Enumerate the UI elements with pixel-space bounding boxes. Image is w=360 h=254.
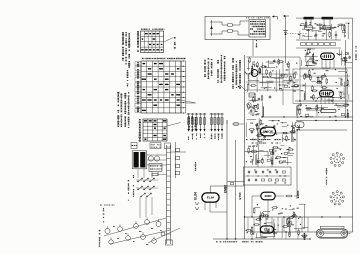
- EM80 grid lead: [252, 195, 261, 197]
- selector leads down: [151, 172, 153, 179]
- voltage selector box: [149, 164, 162, 172]
- tube socket bottom view 1: [330, 152, 345, 166]
- tone box value labels: [247, 175, 249, 178]
- EF89 pin leads: [320, 97, 322, 104]
- note line (rotated): [127, 70, 129, 87]
- antenna trimmer 1: [315, 33, 318, 37]
- rail y120.5: [296, 120, 353, 122]
- mixer grid network wiring mesh: [302, 49, 318, 67]
- pilot lamp 1: [148, 156, 153, 161]
- tube base side nib: [349, 232, 351, 234]
- front-end stage components: [262, 76, 269, 78]
- coil data table: [143, 119, 167, 141]
- svg-text:EABC80: EABC80: [263, 130, 273, 133]
- switch link y181.5: [227, 181, 245, 183]
- voltage table column ticks: [142, 58, 185, 60]
- EL84 pin leads: [204, 202, 206, 210]
- small part labels near lamps: [113, 225, 115, 228]
- parts list block (rotated): [117, 92, 119, 127]
- pointer to frequency note: [164, 38, 174, 43]
- heater chain wire 2: [110, 230, 170, 244]
- HT rail vertical: [352, 40, 354, 232]
- fuse lead: [158, 174, 167, 176]
- tick columns right of coil table: [188, 116, 190, 130]
- svg-text:EL84: EL84: [207, 196, 215, 200]
- AM coil rail bottom: [296, 47, 341, 49]
- dial lamp lead: [148, 228, 180, 243]
- switch to lamp verticals: [139, 197, 141, 218]
- cable harness ladder: [166, 145, 168, 244]
- mid vertical wire: [235, 140, 237, 239]
- mixer grid resistor: [261, 95, 263, 102]
- pickup wiring: [213, 21, 222, 23]
- HT bus y232: [250, 231, 353, 233]
- lamp stems: [107, 226, 109, 229]
- socket caption: [326, 168, 328, 185]
- alignment table column ticks: [141, 28, 165, 29]
- ferrite rod antenna bars: [304, 17, 314, 20]
- waveband switch bank 2: [211, 113, 213, 131]
- legend box 3: [165, 143, 171, 148]
- osc anode network value labels: [339, 53, 342, 56]
- padder capacitor: [269, 95, 272, 99]
- voltage table: [141, 61, 181, 113]
- svg-text:EM80: EM80: [296, 190, 300, 198]
- tube EF89: [320, 90, 334, 97]
- dashed coupling line: [287, 33, 307, 35]
- tube EM80: [261, 192, 275, 200]
- svg-text:ET90: ET90: [238, 192, 242, 200]
- left AVC branch: [270, 132, 296, 134]
- dipole antenna arrow 2: [284, 15, 290, 17]
- IF module outline box: [293, 69, 347, 104]
- harness end box: [166, 240, 173, 245]
- antenna tuning value labels: [313, 27, 316, 30]
- dipole antenna arrow 1: [273, 16, 278, 18]
- EL84 anode lead: [210, 186, 212, 193]
- heater chain wire 1: [104, 218, 166, 236]
- IF output network wiring mesh: [297, 104, 350, 118]
- fuse: [152, 173, 158, 175]
- tube base right pin circle: [341, 230, 347, 236]
- small dark mark: [303, 233, 305, 240]
- volume link to switch: [232, 123, 245, 125]
- antenna tuning wiring mesh: [300, 22, 350, 39]
- power stage vertical drops: [247, 217, 249, 232]
- pickup capacitor: [228, 24, 233, 27]
- front-end bottom rail: [246, 89, 300, 91]
- antenna connector: [283, 30, 287, 32]
- heater lamp circles: [105, 229, 110, 234]
- svg-text:24C: 24C: [297, 124, 301, 131]
- IF mid rails: [300, 75, 350, 77]
- tube EABC80: [260, 127, 275, 136]
- rail y130: [297, 129, 347, 131]
- main left vertical wire: [244, 55, 246, 239]
- IF transformer can 2: [295, 122, 304, 128]
- tone control box: [244, 167, 292, 185]
- right margin tick text: [355, 46, 357, 60]
- pickup crystal element: [211, 20, 213, 36]
- pilot lamp 2: [154, 156, 159, 161]
- IF output network components: [299, 103, 302, 107]
- inner right vertical: [345, 40, 347, 117]
- ferrite coil taps: [305, 20, 307, 26]
- FM dipole feed line: [341, 17, 353, 19]
- EM80 feed vertical x297: [296, 130, 298, 199]
- oscillator coil: [249, 93, 255, 97]
- ladder pointer: [186, 102, 195, 104]
- grid resistor: [271, 158, 273, 167]
- coil pack: [301, 42, 306, 45]
- osc anode network wiring mesh: [337, 49, 352, 66]
- osc section vertical: [299, 57, 301, 101]
- oscillator section value labels: [254, 110, 257, 113]
- AVC rail y117: [262, 116, 353, 118]
- IF output network value labels: [338, 108, 340, 111]
- FM triode circle: [251, 70, 258, 77]
- front-end top rail: [246, 56, 300, 58]
- IF transformer can top view: [321, 109, 337, 112]
- mains switch contacts: [138, 179, 142, 182]
- HT bus y217: [245, 216, 353, 218]
- svg-text:EF89: EF89: [340, 78, 344, 85]
- mains lead down: [137, 169, 139, 178]
- front-end stage value labels: [287, 82, 289, 85]
- detector stage value labels: [277, 123, 279, 126]
- frequency note (rotated): [174, 37, 176, 49]
- mixer grid network components: [308, 48, 310, 55]
- mixer grid network value labels: [313, 59, 315, 62]
- tube ECH81: [321, 53, 335, 59]
- EM80 cathode lead: [267, 201, 269, 218]
- coupling cap: [257, 158, 259, 167]
- front-end stage wiring mesh: [245, 60, 299, 92]
- IF amplifier stage value labels: [301, 89, 304, 92]
- speaker arrows: [195, 202, 199, 205]
- antenna coil MW: [323, 26, 331, 29]
- antenna coil LW: [305, 26, 313, 29]
- legend pointer line: [239, 84, 246, 91]
- tube base centre line: [324, 232, 341, 234]
- svg-text:EZ80: EZ80: [264, 228, 271, 231]
- pickup box caption: [246, 17, 269, 18]
- tube base bottom line: [320, 238, 345, 240]
- detector stage components: [273, 125, 276, 129]
- IF amplifier stage components: [311, 90, 318, 92]
- power supply stage value labels: [291, 223, 294, 226]
- dial pointer line: [180, 100, 196, 103]
- tube base left pin circle: [318, 230, 324, 236]
- aux component chain: [175, 142, 177, 178]
- power supply stage components: [298, 229, 300, 236]
- antenna lead-in wire: [285, 19, 287, 63]
- pickup output lead: [252, 40, 254, 57]
- band text column B: [217, 60, 219, 83]
- diode element: [247, 103, 251, 107]
- detector caption row: [246, 139, 296, 140]
- coil table row labels: [139, 119, 141, 142]
- heater labels: [103, 208, 105, 222]
- switch feed vertical wire: [226, 120, 228, 239]
- voltage table row label boxes: [135, 62, 141, 66]
- screen rail y101: [295, 100, 353, 102]
- tube base side view: [317, 229, 348, 237]
- AF coupling components: [271, 152, 274, 154]
- pickup terminal strip: [249, 20, 266, 38]
- antenna trimmer 2: [335, 33, 338, 37]
- transformer leads: [147, 154, 167, 156]
- tone network parts: [248, 170, 250, 174]
- mains transformer windings: [134, 152, 139, 168]
- power supply stage wiring mesh: [247, 204, 308, 238]
- alignment table: [141, 31, 164, 53]
- IF amplifier stage wiring mesh: [304, 68, 349, 100]
- coil table pointer: [167, 123, 181, 127]
- switch row links: [136, 179, 158, 181]
- EM80 series resistor: [285, 195, 292, 197]
- legend box 1: [131, 143, 137, 149]
- speaker link: [171, 151, 187, 153]
- switch legend text: [232, 58, 234, 89]
- transformer frame: [132, 151, 147, 169]
- alignment table row labels: [137, 31, 139, 52]
- service note text block (rotated): [122, 32, 124, 61]
- volume control lead: [245, 151, 269, 153]
- AM coil rail top: [296, 39, 341, 41]
- bus junction dots: [251, 216, 252, 217]
- voltage table right ladder: [180, 61, 182, 113]
- IF rail y68: [300, 67, 352, 69]
- legend box 2: [150, 143, 161, 149]
- ECH81 pin leads: [321, 60, 323, 69]
- oscillator section wiring mesh: [248, 94, 263, 117]
- tube EL84: [202, 193, 219, 202]
- osc anode network components: [345, 53, 348, 55]
- tube EZ80: [260, 226, 273, 233]
- pickup unit box: [205, 17, 270, 40]
- antenna tuning components: [342, 30, 345, 32]
- detector stage wiring mesh: [246, 118, 296, 142]
- waveband switch bank 1: [188, 113, 190, 131]
- oscillator section components: [253, 96, 255, 103]
- EM80 target lead: [275, 195, 284, 197]
- svg-text:EM80: EM80: [265, 194, 272, 198]
- svg-text:EL84: EL84: [194, 192, 198, 200]
- power block labels: [133, 175, 134, 197]
- front-end right vertical: [282, 62, 284, 105]
- voltage annotations: [216, 241, 262, 242]
- tube socket bottom view 2: [330, 191, 345, 205]
- AF coupling wiring mesh: [246, 144, 294, 165]
- heater bus y239: [213, 238, 310, 240]
- front-end mid rails: [246, 73, 298, 75]
- band text column A: [204, 60, 206, 77]
- AF coupling value labels: [253, 145, 255, 148]
- label mid small: [195, 162, 197, 171]
